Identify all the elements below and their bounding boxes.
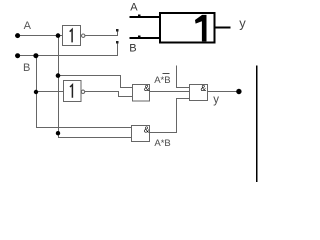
pin open-end marker of B stub bbox=[116, 41, 118, 44]
wire dangling stub into final gate top input bbox=[177, 66, 191, 88]
inverter G1 output bubble bbox=[82, 34, 85, 37]
equivalent gate U6 big label 1 bbox=[195, 15, 207, 42]
node junction on A at inverter G1 input bbox=[56, 33, 61, 38]
node A input terminal dot bbox=[15, 33, 20, 38]
svg-text:&: & bbox=[144, 83, 150, 93]
node junction dot on A drop above AND2 bbox=[56, 131, 60, 135]
equivalent gate input wire A bbox=[129, 16, 160, 18]
overbar over B of A*Bbar bbox=[163, 73, 170, 75]
AND gate G3 body bbox=[133, 85, 150, 102]
svg-text:&: & bbox=[144, 124, 150, 134]
svg-text:A: A bbox=[24, 20, 32, 32]
svg-text:A*B: A*B bbox=[154, 138, 170, 149]
pin tick on input B bbox=[138, 36, 141, 38]
window edge vertical line at right bbox=[256, 66, 258, 183]
wire net B horizontal bbox=[15, 55, 118, 57]
svg-text:A*B: A*B bbox=[154, 75, 170, 86]
wire net A horizontal bbox=[15, 35, 63, 37]
svg-text:y: y bbox=[213, 94, 219, 106]
svg-text:B: B bbox=[23, 62, 30, 74]
AND gate G4 body bbox=[132, 126, 150, 142]
wire AND G3 output to final gate input bbox=[150, 91, 191, 93]
svg-text:&: & bbox=[201, 83, 207, 93]
wire net A vertical drop at x=58 down to AND2 bottom input bbox=[59, 36, 133, 138]
equivalent gate U6 body (big box) bbox=[160, 13, 214, 42]
wire B tap into inverter G2 input bbox=[37, 91, 65, 93]
node B input terminal dot bbox=[15, 53, 20, 58]
svg-text:A: A bbox=[130, 2, 138, 14]
inverter G2 label 1 bbox=[70, 85, 72, 98]
pin open-end marker of G1 output stub bbox=[116, 29, 118, 32]
wire inverter G1 output with open stub up bbox=[85, 29, 118, 36]
node output terminal dot bbox=[236, 89, 241, 94]
pin tick on input A bbox=[138, 15, 141, 17]
wire inverter G2 output to AND1 bottom input bbox=[85, 92, 133, 97]
svg-text:B: B bbox=[129, 42, 136, 54]
wire net B vertical drop x=36 to AND2 top input bbox=[37, 56, 133, 128]
equivalent gate output wire bbox=[215, 27, 230, 29]
inverter G2 output bubble bbox=[81, 90, 84, 93]
equivalent gate input wire B bbox=[130, 37, 161, 39]
inverter G1 body bbox=[63, 26, 81, 46]
inverter G2 body bbox=[64, 81, 82, 102]
node junction B tap to inverter G2 bbox=[34, 90, 38, 94]
wire AND G4 output up to final gate bottom input bbox=[150, 99, 191, 133]
AND gate G5 (output gate) body bbox=[190, 85, 208, 101]
wire net B open stub up bbox=[117, 41, 119, 56]
inverter G1 label 1 bbox=[70, 29, 72, 42]
node junction on B at x=36 bbox=[33, 53, 38, 58]
wire A tap to AND1 top input bbox=[59, 76, 133, 88]
node junction A tap toward AND1 bbox=[56, 73, 61, 78]
wire output y from final gate bbox=[208, 91, 240, 93]
svg-text:y: y bbox=[239, 16, 246, 31]
